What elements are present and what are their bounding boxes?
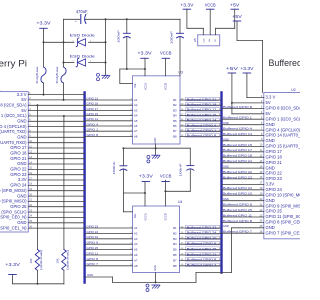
svg-text:A3: A3 — [134, 237, 138, 241]
svg-text:+3.3V: +3.3V — [139, 174, 154, 179]
svg-text:Buffered GPIO: Buffered GPIO — [269, 58, 301, 68]
svg-text:GPIO 15 (UART0_RXD): GPIO 15 (UART0_RXD) — [266, 144, 301, 149]
svg-text:GPIO 18: GPIO 18 — [87, 102, 99, 106]
svg-text:Buffered GPIO 9: Buffered GPIO 9 — [187, 242, 217, 246]
svg-text:B2: B2 — [173, 103, 177, 107]
svg-text:GPIO 24: GPIO 24 — [87, 230, 99, 234]
svg-text:A5: A5 — [134, 248, 138, 252]
svg-text:GND: GND — [223, 165, 229, 169]
svg-text:B4: B4 — [173, 242, 177, 246]
svg-text:B8: B8 — [173, 264, 177, 268]
svg-text:U3: U3 — [179, 70, 183, 74]
svg-text:GND: GND — [266, 138, 275, 143]
svg-text:GND: GND — [17, 161, 26, 166]
svg-text:GND: GND — [153, 265, 157, 271]
svg-text:+5V: +5V — [230, 2, 241, 7]
svg-text:B7: B7 — [173, 129, 177, 133]
svg-text:VCCB: VCCB — [164, 83, 168, 90]
svg-text:GND: GND — [266, 165, 275, 170]
svg-text:GPIO 24: GPIO 24 — [266, 187, 283, 192]
svg-text:Polyfuse: Polyfuse — [55, 66, 59, 84]
svg-text:GND: GND — [223, 197, 229, 201]
svg-text:5V: 5V — [266, 111, 271, 116]
svg-text:GPIO 8: GPIO 8 — [87, 257, 99, 261]
svg-text:A1: A1 — [134, 98, 138, 102]
svg-text:Buffered GPIO 21: Buffered GPIO 21 — [187, 97, 217, 101]
svg-text:A2: A2 — [134, 103, 138, 107]
svg-text:GPIO 15 (UART0_RXD): GPIO 15 (UART0_RXD) — [0, 140, 27, 145]
svg-text:GPIO 18: GPIO 18 — [266, 154, 283, 159]
svg-text:5V: 5V — [266, 100, 271, 105]
svg-text:1: 1 — [73, 40, 74, 42]
svg-text:1: 1 — [73, 61, 74, 63]
svg-text:A2: A2 — [134, 231, 138, 235]
svg-text:GPIO 21: GPIO 21 — [266, 160, 283, 165]
svg-text:(optional): (optional) — [65, 250, 69, 270]
svg-text:B5: B5 — [173, 119, 177, 123]
svg-text:Buffered GPIO 18: Buffered GPIO 18 — [223, 154, 252, 158]
svg-text:Buffered GPIO 24: Buffered GPIO 24 — [223, 186, 252, 190]
svg-text:GPIO 11 (SPI0_SCLK): GPIO 11 (SPI0_SCLK) — [266, 214, 301, 219]
svg-text:A4: A4 — [134, 242, 138, 246]
svg-text:100nF: 100nF — [112, 161, 116, 174]
svg-text:GPIO 9 (SPI0_MISO): GPIO 9 (SPI0_MISO) — [0, 199, 27, 204]
svg-text:Buffered GPIO 23: Buffered GPIO 23 — [223, 175, 252, 179]
svg-text:2: 2 — [90, 40, 91, 42]
svg-text:Buffered GPIO 4: Buffered GPIO 4 — [187, 123, 217, 127]
svg-text:B6: B6 — [173, 253, 177, 257]
svg-text:+5V: +5V — [232, 14, 243, 19]
svg-text:GND: GND — [17, 193, 26, 198]
svg-text:GPIO 4 (GPCLK0): GPIO 4 (GPCLK0) — [0, 124, 27, 129]
svg-text:100nF: 100nF — [179, 163, 183, 176]
svg-text:GPIO 9 (SPI0_MISO): GPIO 9 (SPI0_MISO) — [266, 203, 301, 208]
svg-text:+5V: +5V — [226, 66, 239, 71]
svg-text:U2: U2 — [291, 88, 295, 92]
svg-text:B8: B8 — [173, 134, 177, 138]
svg-text:Raspberry Pi: Raspberry Pi — [0, 58, 27, 68]
svg-text:GPIO 21: GPIO 21 — [87, 96, 99, 100]
svg-text:GPIO 7 (SPI0_CE1_N): GPIO 7 (SPI0_CE1_N) — [0, 225, 27, 230]
svg-text:A1: A1 — [134, 226, 138, 230]
svg-text:3.3 V: 3.3 V — [17, 92, 27, 97]
svg-text:Buffered GPIO 24: Buffered GPIO 24 — [187, 231, 217, 235]
svg-text:A6: A6 — [134, 253, 138, 257]
svg-text:A7: A7 — [134, 129, 138, 133]
svg-text:Buffered GPIO 25: Buffered GPIO 25 — [223, 208, 252, 212]
svg-text:+3.3V: +3.3V — [180, 2, 194, 7]
svg-text:+3.3V: +3.3V — [137, 50, 152, 55]
svg-text:GPIO 22: GPIO 22 — [10, 167, 27, 172]
svg-text:10K: 10K — [56, 258, 60, 263]
svg-text:B4: B4 — [173, 114, 177, 118]
svg-text:B7: B7 — [173, 258, 177, 262]
svg-text:GND: GND — [17, 135, 26, 140]
svg-text:GPIO 21: GPIO 21 — [10, 156, 27, 161]
svg-text:Buffered GPIO 22: Buffered GPIO 22 — [223, 170, 252, 174]
svg-text:Polyfuse: Polyfuse — [35, 66, 39, 84]
svg-text:5V: 5V — [21, 108, 26, 113]
svg-text:GPIO 4 (GPCLK0): GPIO 4 (GPCLK0) — [266, 127, 301, 132]
svg-text:A3: A3 — [134, 108, 138, 112]
svg-text:Buffered GPIO 10: Buffered GPIO 10 — [187, 236, 217, 240]
svg-text:GPIO 14: GPIO 14 — [87, 117, 99, 121]
svg-text:VCCA: VCCA — [143, 213, 147, 220]
svg-text:Buffered GPIO 7: Buffered GPIO 7 — [223, 230, 252, 234]
svg-text:Buffered GPIO 1: Buffered GPIO 1 — [223, 116, 252, 120]
svg-text:GPIO 22: GPIO 22 — [266, 171, 283, 176]
svg-text:Out: Out — [208, 38, 211, 42]
svg-text:GND: GND — [266, 225, 275, 230]
svg-text:VCCB: VCCB — [160, 174, 172, 179]
svg-text:100nF: 100nF — [117, 30, 121, 43]
svg-text:5V: 5V — [21, 97, 26, 102]
svg-text:GPIO 10: GPIO 10 — [87, 235, 99, 239]
svg-text:10K: 10K — [29, 258, 33, 263]
svg-text:GND: GND — [223, 121, 229, 125]
svg-text:ESD Diode: ESD Diode — [70, 32, 96, 37]
svg-text:GPIO 7 (SPI0_CE1_N): GPIO 7 (SPI0_CE1_N) — [266, 230, 301, 235]
svg-text:GPIO 8 (I2C0_SDA): GPIO 8 (I2C0_SDA) — [0, 103, 27, 108]
svg-text:GND: GND — [153, 137, 157, 143]
svg-text:GPIO 14 (UART0_TXD): GPIO 14 (UART0_TXD) — [266, 133, 301, 138]
svg-text:A4: A4 — [134, 114, 138, 118]
svg-text:GPIO 18: GPIO 18 — [10, 151, 27, 156]
svg-text:B1: B1 — [173, 98, 177, 102]
svg-text:Buffered GPIO 8: Buffered GPIO 8 — [223, 219, 252, 223]
svg-text:GPIO 15: GPIO 15 — [87, 112, 99, 116]
svg-text:+3.3V: +3.3V — [240, 66, 254, 71]
svg-text:GPIO 8 (I2C0_SDA): GPIO 8 (I2C0_SDA) — [266, 106, 301, 111]
svg-text:VCCB: VCCB — [160, 50, 172, 55]
svg-text:Buffered GPIO 25: Buffered GPIO 25 — [187, 247, 217, 251]
svg-text:Buffered GPIO 11: Buffered GPIO 11 — [187, 252, 217, 256]
svg-text:VCCB: VCCB — [164, 213, 168, 220]
svg-text:GPIO 1 (I2C0_SCL): GPIO 1 (I2C0_SCL) — [266, 116, 301, 121]
svg-text:GPIO 1: GPIO 1 — [87, 128, 99, 132]
svg-text:GPIO 8 (SPI0_CE0_N): GPIO 8 (SPI0_CE0_N) — [266, 220, 301, 225]
svg-text:+3.3V: +3.3V — [36, 21, 51, 26]
svg-text:U5: U5 — [193, 38, 197, 42]
svg-text:GND: GND — [266, 122, 275, 127]
svg-text:Buffered GPIO 18: Buffered GPIO 18 — [187, 103, 217, 107]
svg-text:GPIO 23: GPIO 23 — [266, 176, 283, 181]
svg-text:A7: A7 — [134, 258, 138, 262]
svg-text:GPIO 24: GPIO 24 — [10, 183, 27, 188]
svg-text:GPIO 8 (SPI0_CE0_N): GPIO 8 (SPI0_CE0_N) — [0, 215, 27, 220]
svg-text:GPIO 7: GPIO 7 — [87, 262, 99, 266]
svg-text:OE: OE — [133, 83, 137, 87]
svg-text:GPIO 11: GPIO 11 — [87, 251, 99, 255]
svg-text:Buffered GPIO 14: Buffered GPIO 14 — [223, 132, 252, 136]
svg-text:GPIO 23: GPIO 23 — [87, 224, 99, 228]
svg-text:GPIO 17: GPIO 17 — [266, 149, 283, 154]
svg-text:Buffered GPIO 8: Buffered GPIO 8 — [187, 258, 217, 262]
svg-text:GND: GND — [87, 273, 93, 277]
svg-text:B3: B3 — [173, 237, 177, 241]
svg-text:GPIO 14 (UART0_TXD): GPIO 14 (UART0_TXD) — [0, 129, 27, 134]
svg-text:GPIO 17: GPIO 17 — [87, 107, 99, 111]
svg-text:2: 2 — [90, 61, 91, 63]
svg-text:B5: B5 — [173, 248, 177, 252]
svg-text:2: 2 — [87, 13, 88, 15]
svg-text:J1: J1 — [0, 87, 1, 91]
svg-text:3.3V: 3.3V — [18, 177, 27, 182]
svg-text:Buffered GPIO 17: Buffered GPIO 17 — [223, 148, 252, 152]
svg-text:GND: GND — [223, 224, 229, 228]
svg-text:OE: OE — [133, 214, 137, 218]
svg-text:Buffered GPIO 7: Buffered GPIO 7 — [187, 263, 217, 267]
svg-text:Buffered GPIO 15: Buffered GPIO 15 — [223, 143, 252, 147]
svg-text:GPIO 25: GPIO 25 — [266, 209, 283, 214]
svg-text:+3.3V: +3.3V — [5, 262, 21, 267]
svg-text:B6: B6 — [173, 124, 177, 128]
svg-text:A8: A8 — [134, 264, 138, 268]
svg-text:GPIO 23: GPIO 23 — [10, 172, 27, 177]
svg-text:GPIO 25: GPIO 25 — [10, 204, 27, 209]
svg-text:Buffered GPIO 21: Buffered GPIO 21 — [223, 159, 252, 163]
svg-text:Buffered GPIO 14: Buffered GPIO 14 — [187, 118, 217, 122]
svg-text:B3: B3 — [173, 108, 177, 112]
svg-text:GND: GND — [223, 137, 229, 141]
svg-text:VCCA: VCCA — [143, 83, 147, 90]
svg-text:(optional): (optional) — [39, 250, 43, 270]
svg-text:3.3 V: 3.3 V — [266, 95, 276, 100]
svg-text:GPIO 10 (SPI0_MOSI): GPIO 10 (SPI0_MOSI) — [266, 192, 301, 197]
svg-text:Buffered GPIO 15: Buffered GPIO 15 — [187, 113, 217, 117]
svg-text:Buffered GPIO 4: Buffered GPIO 4 — [223, 127, 252, 131]
svg-text:A6: A6 — [134, 124, 138, 128]
svg-text:A5: A5 — [134, 119, 138, 123]
svg-text:VCCB: VCCB — [205, 2, 216, 7]
svg-text:GPIO 17: GPIO 17 — [10, 145, 27, 150]
svg-text:GND: GND — [17, 119, 26, 124]
svg-text:GPIO 11 (SPI0_SCLK): GPIO 11 (SPI0_SCLK) — [0, 209, 27, 214]
svg-text:Buffered GPIO 8: Buffered GPIO 8 — [187, 134, 217, 138]
svg-text:Buffered GPIO 1: Buffered GPIO 1 — [187, 129, 217, 133]
svg-text:GPIO 4: GPIO 4 — [87, 122, 99, 126]
svg-text:3.3V: 3.3V — [203, 38, 205, 43]
svg-text:GPIO 25: GPIO 25 — [87, 246, 99, 250]
svg-text:GPIO 10 (SPI0_MOSI): GPIO 10 (SPI0_MOSI) — [0, 188, 27, 193]
svg-text:U4: U4 — [178, 200, 182, 204]
svg-text:Buffered GPIO 23: Buffered GPIO 23 — [187, 225, 217, 229]
svg-text:GPIO 9: GPIO 9 — [87, 241, 99, 245]
svg-text:1: 1 — [78, 13, 79, 15]
svg-text:B1: B1 — [173, 226, 177, 230]
svg-text:Buffered GPIO 10: Buffered GPIO 10 — [223, 192, 252, 196]
svg-text:A8: A8 — [134, 134, 138, 138]
svg-text:GND: GND — [266, 198, 275, 203]
svg-text:3.3V: 3.3V — [266, 182, 275, 187]
svg-text:Buffered GPIO 8: Buffered GPIO 8 — [223, 105, 252, 109]
svg-text:Buffered GPIO 17: Buffered GPIO 17 — [187, 108, 217, 112]
svg-text:+: + — [75, 19, 77, 23]
svg-text:GPIO 1 (I2C0_SCL): GPIO 1 (I2C0_SCL) — [0, 113, 27, 118]
svg-text:100nF: 100nF — [169, 31, 173, 44]
svg-text:ESD Diode: ESD Diode — [70, 54, 96, 59]
svg-text:Buffered GPIO 9: Buffered GPIO 9 — [223, 203, 252, 207]
svg-text:GND: GND — [17, 220, 26, 225]
svg-text:GPIO 8: GPIO 8 — [87, 133, 99, 137]
svg-text:Buffered GPIO 11: Buffered GPIO 11 — [223, 213, 252, 217]
svg-text:B2: B2 — [173, 231, 177, 235]
